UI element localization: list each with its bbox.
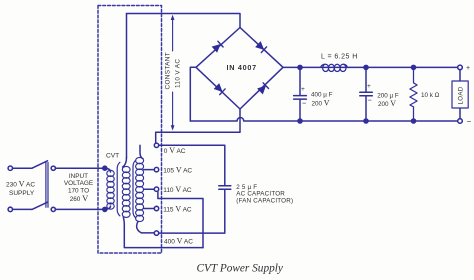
dimension arrowhead bottom [171,125,175,130]
inductor L1 [321,64,348,71]
node resistor top [411,65,415,69]
dimension arrowhead top [171,15,175,20]
dimension line CONSTANT bottom [172,92,174,127]
wire 0V tap up to bridge return [155,132,157,143]
tap terminal 110V [154,187,158,191]
switch S1 bottom blade [32,202,48,209]
capacitor C3 2.5uF plates [219,186,231,190]
supply terminal bottom [8,207,12,211]
svg-text:110 V AC: 110 V AC [163,185,192,194]
wire 0V to fan capacitor [159,145,225,185]
node C1 bottom [298,119,302,123]
diode D4 [257,83,268,94]
svg-text:CVT Power Supply: CVT Power Supply [197,263,284,275]
wire secondary mid top vertical [126,14,128,158]
svg-text:LOAD: LOAD [458,86,465,104]
diode D3 [214,83,225,94]
capacitor C3 bottom lead [159,189,225,233]
svg-text:CONSTANT: CONSTANT [164,52,171,89]
transformer T1 secondary lead bottom [137,221,155,233]
svg-text:−: − [467,117,472,126]
label 2.5uF AC CAPACITOR [236,184,293,204]
tap terminal 105V [154,167,158,171]
svg-text:105 V AC: 105 V AC [163,166,192,175]
top rail to bridge [127,14,241,28]
svg-text:200 V: 200 V [378,99,396,108]
label INPUT VOLTAGE 170 TO 260 V [64,173,93,203]
switch S1 top contact [51,166,55,170]
transformer T1 middle winding [122,166,130,217]
load terminal plus [458,65,463,70]
diode D2 [255,41,266,52]
svg-text:IN 4007: IN 4007 [227,63,257,72]
wire 110V tap loop [158,192,203,248]
capacitor C2 200uF [360,67,373,121]
svg-text:0 V AC: 0 V AC [164,146,186,155]
wire bottom supply [13,208,33,210]
transformer T1 secondary lead top [140,145,143,158]
transformer T1 middle winding lead top [123,158,127,168]
tap terminal 0V [154,143,158,147]
wire top supply [13,167,33,169]
svg-text:+: + [466,65,470,72]
node filter C1 top [298,65,302,69]
transformer core line left [117,162,120,216]
node filter C2 top [364,65,368,69]
dashed enclosure box [98,6,162,254]
node resistor bottom [411,119,415,123]
tap terminal 400V [154,231,158,235]
diode D1 [212,41,223,52]
svg-text:400 V AC: 400 V AC [164,237,193,246]
tap wire 105V [144,169,155,171]
label 230 V AC SUPPLY [6,180,35,197]
svg-text:(FAN CAPACITOR): (FAN CAPACITOR) [236,197,293,204]
svg-text:115 V AC: 115 V AC [163,205,192,214]
svg-text:CVT: CVT [106,153,119,160]
dimension line CONSTANT top [172,17,174,51]
tap wire 115V [144,208,155,210]
transformer T1 middle winding lead bottom [123,217,124,224]
wire bottom to transformer [55,208,104,210]
switch S1 bottom contact [51,207,55,211]
load box [452,81,468,108]
transformer T1 secondary winding [136,157,144,221]
svg-text:SUPPLY: SUPPLY [9,190,35,197]
tap terminal 115V [154,206,158,210]
svg-text:−: − [368,95,373,104]
tap wire 110V [144,188,155,190]
svg-text:+: + [301,86,305,93]
load terminal minus [458,119,463,124]
svg-text:L = 6.25 H: L = 6.25 H [321,53,358,60]
load leads [459,70,461,119]
transformer T1 primary lead bottom [105,206,111,209]
wire plus rail [283,66,458,68]
bottom rail with hop [190,118,457,121]
wire top to transformer [55,167,104,169]
capacitor C1 400uF [294,67,307,121]
svg-text:10 k Ω: 10 k Ω [421,92,440,99]
svg-text:200 V: 200 V [312,99,330,108]
svg-text:INPUT: INPUT [69,173,88,180]
transformer T1 primary winding [107,170,114,209]
bridge rectifier edges [196,28,283,110]
transformer T1 primary lead top [105,168,111,172]
supply terminal top [8,166,12,170]
node C2 bottom [364,119,368,123]
switch link bar [46,163,48,208]
transformer core line right [133,160,136,218]
resistor R1 10k [410,67,417,121]
svg-text:−: − [302,98,307,107]
wire bridge minus down [190,67,196,121]
wire bridge return [156,109,240,132]
node primary top [103,166,107,170]
svg-text:230 V AC: 230 V AC [6,180,35,189]
wire middle winding to 110V loop [124,224,203,248]
svg-text:110 V AC: 110 V AC [174,59,181,88]
svg-text:+: + [367,83,371,90]
switch S1 top blade [32,161,48,168]
svg-text:400 µ F: 400 µ F [311,91,333,98]
node primary bottom [103,207,107,211]
svg-text:VOLTAGE: VOLTAGE [64,180,93,187]
